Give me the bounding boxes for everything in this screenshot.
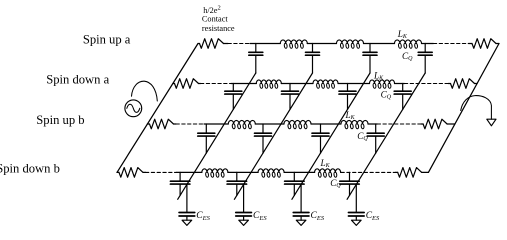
svg-text:Spin up a: Spin up a <box>83 33 131 47</box>
wire source arc to left bus <box>132 81 158 101</box>
inductor La12 <box>337 40 364 49</box>
svg-text:Spin up b: Spin up b <box>36 113 84 127</box>
resistor R4L contact <box>117 168 146 178</box>
svg-text:LK: LK <box>397 29 408 40</box>
wire left edge bus <box>117 44 198 173</box>
wire rail 4 dashed right <box>341 171 396 173</box>
inductor Lb21 <box>202 169 228 178</box>
wire rail 3 dashed left <box>176 123 204 125</box>
wire right edge bus <box>428 44 499 173</box>
capacitor CES1 <box>179 185 195 221</box>
wire column 3 diagonal <box>292 73 370 199</box>
wire rail 4 dashed left <box>146 171 177 173</box>
wire rail 2 main <box>231 83 404 85</box>
capacitor CQ43 <box>285 172 305 195</box>
capacitor CQ24 <box>394 84 411 110</box>
capacitor CQ21 <box>225 84 242 110</box>
inductor Lb11 <box>228 120 255 129</box>
inductor La13 <box>395 40 422 49</box>
wire rail 1 main <box>250 43 433 45</box>
capacitor CQ12 <box>306 44 320 74</box>
svg-text:CQ: CQ <box>402 51 413 62</box>
svg-text:Spin down a: Spin down a <box>46 73 109 87</box>
capacitor CQ41 <box>170 172 190 195</box>
svg-text:h/2e2: h/2e2 <box>203 4 221 15</box>
wire rail 2 dashed left <box>201 83 232 85</box>
svg-text:CQ: CQ <box>330 178 341 189</box>
wire rail 3 main <box>204 123 377 125</box>
svg-text:Contact: Contact <box>202 15 229 24</box>
wire rail 1 dashed left <box>228 43 250 45</box>
inductor Lb12 <box>284 120 311 129</box>
svg-text:LK: LK <box>373 71 384 82</box>
svg-text:CES: CES <box>366 211 380 222</box>
capacitor CQ33 <box>312 124 329 153</box>
capacitor CES3 <box>293 185 309 221</box>
svg-text:CES: CES <box>196 211 210 222</box>
inductor La23 <box>370 80 395 89</box>
capacitor CQ34 <box>367 124 384 153</box>
inductor Lb23 <box>315 169 341 178</box>
svg-text:resistance: resistance <box>202 24 235 33</box>
ground 4 <box>352 220 362 225</box>
svg-text:CQ: CQ <box>381 89 392 100</box>
ground 1 <box>182 220 192 225</box>
svg-text:LK: LK <box>320 158 331 169</box>
inductor Lb22 <box>258 169 284 178</box>
capacitor CQ11 <box>249 44 263 74</box>
capacitor CQ44 <box>340 172 359 195</box>
wire rail 4 main <box>177 171 342 173</box>
ac source V1 <box>125 100 142 117</box>
current return arrow <box>461 96 496 126</box>
capacitor CQ13 <box>363 44 377 74</box>
svg-text:CES: CES <box>253 211 267 222</box>
capacitor CES4 <box>349 185 365 221</box>
wire column 1 diagonal <box>178 73 256 199</box>
resistor R3R contact <box>421 119 455 129</box>
resistor R2L contact <box>173 79 201 89</box>
resistor R2R contact <box>448 79 477 89</box>
capacitor CES2 <box>236 185 252 221</box>
capacitor CQ14 <box>418 44 432 74</box>
wire rail 1 dashed right <box>433 43 468 45</box>
inductor Lb13 <box>341 120 368 129</box>
note contact resistance <box>202 4 235 33</box>
resistor R1R contact <box>469 39 500 49</box>
capacitor CQ31 <box>198 124 215 153</box>
ground 2 <box>239 220 249 225</box>
wire column 2 diagonal <box>234 73 312 199</box>
wire column 4 diagonal <box>347 73 425 199</box>
inductor La11 <box>280 40 307 49</box>
capacitor CQ23 <box>339 84 356 110</box>
resistor R1L contact <box>198 39 228 49</box>
inductor La21 <box>256 80 281 89</box>
svg-text:LK: LK <box>345 110 356 121</box>
ground 3 <box>296 220 306 225</box>
resistor R4R contact <box>396 168 429 178</box>
svg-text:CES: CES <box>311 211 325 222</box>
svg-text:Spin down b: Spin down b <box>0 162 60 176</box>
resistor R3L contact <box>147 119 176 129</box>
capacitor CQ32 <box>255 124 272 153</box>
capacitor CQ22 <box>282 84 299 110</box>
wire rail 3 dashed right <box>377 123 421 125</box>
wire rail 2 dashed right <box>404 83 448 85</box>
inductor La22 <box>313 80 338 89</box>
capacitor CQ42 <box>227 172 247 195</box>
